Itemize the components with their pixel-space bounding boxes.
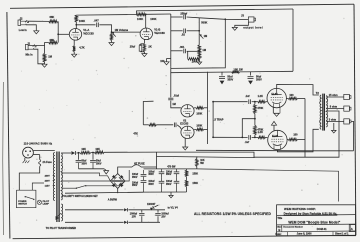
svg-text:100K: 100K (150, 17, 156, 21)
label 10K A (81, 148, 86, 151)
svg-text:350V: 350V (82, 163, 88, 165)
svg-text:WEM DOM "Boogie Blue Model": WEM DOM "Boogie Blue Model" (288, 220, 340, 224)
svg-text:8 ohm: 8 ohm (330, 106, 338, 109)
selector wire (32, 183, 44, 190)
svg-text:to V3, V4: to V3, V4 (168, 207, 179, 210)
screen bus (304, 99, 306, 158)
svg-text:50uf: 50uf (82, 161, 87, 163)
label 150K a (192, 172, 198, 175)
label .1uf V4 (245, 141, 250, 144)
svg-text:68K: 68K (50, 15, 55, 19)
svg-text:HT FUSE: HT FUSE (134, 162, 145, 165)
node grid bus V1A (57, 21, 59, 42)
svg-text:June 8, 1966: June 8, 1966 (297, 233, 312, 236)
wire J2 tip to R1 (29, 20, 49, 22)
svg-text:A: A (351, 227, 353, 231)
resistor 1M lower (198, 45, 201, 60)
resistor 10K decoupling (232, 71, 240, 74)
pentode V4 EL84 (268, 130, 287, 149)
label 15 ohm (329, 94, 339, 97)
resistor 1.2K V3 (258, 101, 267, 103)
tap label 115V (45, 186, 55, 188)
label 470K upper (257, 107, 263, 110)
label 1M tone (204, 34, 208, 38)
label 68K R2 (50, 38, 55, 42)
label choke (200, 159, 205, 165)
transformer T1 heater winding (61, 204, 62, 221)
smoothing cap col3 a (174, 169, 180, 178)
V4 grid wire (212, 136, 247, 138)
svg-text:LAMP: LAMP (43, 202, 50, 205)
svg-text:A 50/5W: A 50/5W (108, 198, 118, 201)
svg-text:350V: 350V (227, 78, 233, 81)
label 100uf d (148, 181, 154, 186)
choke resistor (196, 156, 198, 169)
bias zener (150, 205, 159, 210)
svg-text:470 5W: 470 5W (167, 166, 176, 169)
smoothing cap col1 b (141, 179, 147, 192)
bridge east riser (125, 170, 129, 181)
svg-text:110-240VAC 50/60 Hz: 110-240VAC 50/60 Hz (24, 142, 53, 146)
label to V3 V4 (168, 207, 179, 210)
label 100uf b (132, 182, 138, 187)
svg-text:1N4007: 1N4007 (147, 203, 156, 206)
label 1M lower (202, 48, 206, 52)
svg-text:½ECC83: ½ECC83 (83, 32, 94, 36)
label 100 gnd (160, 60, 165, 63)
filter cap C11 50uf (248, 72, 254, 85)
ground OT secondary (332, 123, 337, 133)
resistor 100K V1-A plate (75, 15, 77, 29)
label 2K (148, 44, 151, 48)
label V1-B (154, 28, 165, 35)
label 3 ohm (329, 118, 337, 121)
svg-text:DOM-01: DOM-01 (317, 227, 327, 231)
resistor 4.7K V1-A cathode (73, 46, 75, 52)
V4 cathode ground (271, 121, 276, 130)
speaker jack 3 (344, 119, 351, 124)
svg-text:350V: 350V (132, 177, 138, 179)
label pilot lamp (43, 201, 50, 206)
bias line upper (65, 209, 124, 211)
label 1N4007 (147, 203, 156, 206)
ground below J2 (34, 31, 39, 34)
svg-text:output level: output level (243, 25, 263, 29)
V2-B grid cap (143, 123, 181, 130)
label .01 (173, 95, 179, 98)
smoothing cap col3 b (174, 177, 180, 192)
label 10K B (95, 148, 100, 151)
label 8 ohm (330, 106, 338, 109)
tone pot wiper (199, 34, 203, 39)
title doc number (317, 227, 327, 231)
label 100uf f (166, 181, 172, 186)
transformer T1 HT secondary (61, 153, 62, 200)
label .047 (94, 18, 100, 22)
transformer T2 primary (320, 95, 322, 129)
svg-text:47K: 47K (133, 133, 138, 136)
svg-text:350V: 350V (166, 184, 172, 186)
svg-text:500K: 500K (201, 21, 207, 25)
resistor R2 68K (49, 41, 58, 44)
B+ feed wire to V1-A (76, 14, 136, 17)
label EL84 V4 (272, 134, 279, 138)
transformer T2 core (323, 94, 325, 131)
label V2 (180, 119, 189, 126)
ground J3 (232, 27, 237, 30)
heater run to output (197, 169, 339, 202)
V4 plate to OT (277, 129, 318, 152)
wire cap to volume pot (99, 25, 111, 32)
svg-text:100uf: 100uf (166, 181, 172, 183)
junction .001 (187, 50, 200, 52)
bridge rectifier (110, 174, 125, 189)
svg-text:350V: 350V (132, 185, 138, 187)
resistor loop 100K (188, 51, 200, 60)
jack J2 (18, 20, 29, 25)
V3 grid wire (212, 101, 247, 103)
tone pot body (198, 30, 200, 45)
wire V1-B cathode (143, 39, 145, 43)
wire sec top to jack (326, 96, 344, 98)
label J3 (241, 14, 244, 18)
svg-text:2K: 2K (148, 44, 151, 48)
svg-text:B: B (278, 228, 280, 232)
svg-text:100uf: 100uf (166, 171, 172, 173)
label 100 V4 (293, 134, 298, 137)
rectifier diode D1 (71, 151, 80, 155)
capacitor 25uf bypass (139, 44, 144, 52)
potentiometer 1M volume (110, 31, 112, 42)
label 50uf psu a (82, 161, 88, 166)
title designed by (284, 212, 338, 216)
capacitor .047 (97, 23, 99, 28)
wire sec bot to jack (326, 120, 344, 122)
resistor 100K V1-B plate (137, 13, 146, 16)
svg-text:100uf: 100uf (132, 182, 138, 184)
polarity switch (62, 181, 125, 189)
bias line lower (65, 221, 124, 223)
page edge shadow (2, 82, 5, 235)
V3 screen resistor 100 (286, 97, 305, 99)
label 470K lower (257, 129, 263, 132)
svg-text:1000uf: 1000uf (130, 214, 138, 216)
title label (277, 217, 283, 220)
svg-text:Low In: Low In (19, 29, 27, 32)
transformer T1 primary (53, 153, 54, 201)
svg-text:15 ohm: 15 ohm (329, 94, 339, 97)
svg-text:Document Number: Document Number (283, 226, 303, 229)
label 100K loop (192, 60, 198, 64)
ground mains (23, 158, 30, 163)
svg-text:100K: 100K (137, 17, 143, 21)
svg-text:25V: 25V (161, 216, 166, 218)
label V1-A (83, 28, 94, 35)
signal loop down (171, 19, 226, 68)
label 1M Volume (115, 28, 129, 32)
ground below R3 (42, 64, 47, 67)
title date (275, 233, 349, 236)
capacitor .02 (171, 29, 199, 34)
svg-text:½ECC83: ½ECC83 (154, 31, 165, 35)
label 50uf b (256, 76, 262, 82)
svg-text:1000uf: 1000uf (161, 214, 169, 216)
svg-text:100: 100 (160, 60, 165, 63)
label output level (243, 25, 263, 29)
svg-text:100: 100 (293, 134, 298, 137)
jack J1 (26, 44, 37, 49)
svg-text:150K: 150K (192, 172, 198, 175)
bias run (157, 156, 255, 157)
svg-text:EL84: EL84 (272, 134, 279, 138)
tone column left wire (170, 14, 172, 67)
bias diode D3 (124, 221, 160, 224)
wire cap to grid stopper V4 (252, 137, 258, 139)
svg-text:10K: 10K (95, 148, 100, 151)
label 1M R3 (48, 55, 52, 59)
svg-text:100K: 100K (192, 60, 198, 64)
title company (284, 207, 316, 211)
HT top rail (137, 9, 294, 15)
resistor 470K lower (254, 118, 257, 137)
wire V1-B plate (145, 14, 147, 28)
fuse 2A (19, 155, 41, 191)
HT secondary bottom wire (61, 180, 110, 182)
svg-text:1M: 1M (202, 48, 206, 52)
capacitor .1uf V4 (249, 135, 251, 140)
svg-text:WEM WATKINS CORP.: WEM WATKINS CORP. (284, 207, 316, 211)
divider tap wire (241, 118, 255, 139)
label 100K V2-B (196, 125, 202, 128)
label .02 (181, 33, 185, 37)
heater arrows (56, 213, 62, 220)
label 500K (201, 21, 207, 25)
ground tone pot (197, 59, 201, 64)
label 100K V2-A (196, 113, 202, 116)
svg-text:V1-A: V1-A (83, 28, 89, 32)
tap label 240V (45, 174, 55, 177)
svg-text:350V: 350V (96, 163, 102, 165)
label 100uf c (148, 171, 154, 176)
bridge output top (118, 167, 130, 174)
wire tone col to loop (170, 67, 172, 69)
svg-text:POLARITY SWITCH 120/240 SET: POLARITY SWITCH 120/240 SET (62, 195, 98, 198)
bias diode D2 (124, 208, 165, 211)
svg-text:ALL RESISTORS 1/2W 5% UNLESS S: ALL RESISTORS 1/2W 5% UNLESS SPECIFIED (194, 212, 271, 216)
PSU cap rail bottom (144, 191, 187, 193)
svg-text:68K: 68K (50, 38, 55, 42)
label 1M grid (172, 103, 175, 106)
ground caps (79, 169, 109, 174)
PI plate bus (207, 72, 209, 144)
wire cap to grid stopper (252, 101, 258, 103)
label 100uf e (166, 171, 172, 176)
svg-text:25V: 25V (132, 216, 137, 218)
HT right vertical (292, 9, 294, 71)
resistor R3 1M vertical (43, 46, 46, 65)
transformer T2 label (316, 91, 320, 95)
svg-text:1M: 1M (204, 34, 208, 38)
svg-text:150K: 150K (192, 182, 198, 185)
svg-text:350V: 350V (148, 174, 154, 176)
B+ sub rail (171, 68, 293, 72)
svg-text:250pf: 250pf (180, 11, 187, 15)
svg-text:.02: .02 (181, 33, 185, 37)
ground V1-B cathode (142, 52, 147, 57)
note all resistors (194, 212, 271, 216)
label 100uf a (132, 174, 138, 179)
label 47K (133, 133, 138, 136)
resistor 1.2K V4 (258, 136, 268, 138)
label .1uf V3 (245, 95, 250, 98)
speaker jack 8 (344, 106, 351, 111)
svg-text:10K 1W: 10K 1W (233, 67, 243, 71)
svg-text:350V: 350V (256, 78, 262, 81)
label 1.2K V4 (258, 131, 263, 134)
svg-text:Date:: Date: (275, 233, 281, 236)
svg-text:4.7K: 4.7K (79, 45, 85, 49)
label .5 TRAN (214, 119, 224, 122)
wire J2 contact to ground (26, 25, 36, 31)
label 1000uf a (130, 214, 138, 219)
triode V2-A (181, 105, 194, 117)
jack J1 label (27, 42, 30, 46)
resistor 2K V1-B cathode (143, 43, 145, 51)
label power switch (18, 201, 27, 206)
wire sec mid to jack (326, 108, 344, 110)
reservoir cap 50uf a (76, 152, 82, 169)
svg-text:100: 100 (289, 94, 294, 97)
resistor 470K upper (254, 102, 257, 119)
wire plate to coupling cap (75, 24, 95, 26)
label 4.7K (79, 45, 85, 49)
feedback line (196, 121, 354, 150)
svg-text:1M Volume: 1M Volume (115, 28, 129, 32)
svg-text:100K: 100K (196, 113, 202, 116)
V2-B input stub (143, 101, 153, 125)
svg-text:1M: 1M (172, 103, 175, 106)
V4 screen resistor 100 (287, 138, 305, 140)
ground cap rail (169, 192, 173, 198)
label 25uf (130, 44, 135, 48)
resistor V2-A plate 100K (194, 107, 207, 109)
V3 plate to OT (277, 84, 319, 95)
svg-text:50uf: 50uf (96, 161, 101, 163)
wire V1-B plate node to tone column (145, 13, 171, 15)
tap label 220V (45, 180, 55, 182)
label .001 (179, 45, 185, 49)
pentode V3 EL84 (267, 88, 286, 107)
tone pot 500K wire (198, 18, 200, 31)
svg-text:.1uf: .1uf (245, 95, 250, 98)
pot wiper arrow (112, 32, 116, 37)
wire pot to V1-B grid (112, 31, 141, 33)
mains switch loop (16, 190, 36, 208)
resistor smoothing A (80, 151, 90, 154)
wire V1-A cathode (73, 40, 75, 46)
svg-text:1.2K: 1.2K (258, 95, 263, 98)
bleeder 150K b (185, 179, 187, 192)
svg-text:25uf: 25uf (130, 44, 135, 48)
svg-text:.5 TRAP: .5 TRAP (214, 119, 224, 122)
svg-text:Sheet 1 of 1: Sheet 1 of 1 (335, 233, 349, 236)
label mains voltage (24, 142, 53, 146)
title rev box (349, 225, 355, 232)
HT secondary top wire (61, 152, 71, 154)
pilot lamp (37, 200, 41, 204)
bias cap 2 (155, 210, 160, 223)
label 100 V3 (289, 94, 294, 97)
svg-text:Designed by Stan Farlside 6.51: Designed by Stan Farlside 6.51 50 Hz. (284, 212, 338, 216)
bias cap 1 (139, 210, 144, 223)
wire J1 contact down (34, 49, 45, 64)
coupling loop vertical (212, 102, 214, 138)
label to pilot (46, 227, 77, 230)
title name (288, 220, 340, 224)
wire J1 tip to R2 (36, 43, 49, 46)
smoothing cap col1 a (141, 170, 147, 179)
wire tone to J3 (199, 18, 248, 20)
triode V2-B (181, 126, 194, 138)
ground volume pot (109, 43, 114, 46)
label Mic In (26, 53, 34, 56)
V3 cathode ground (273, 107, 280, 116)
svg-text:220V: 220V (45, 180, 51, 182)
label 10K 1W (233, 67, 243, 71)
wire J3 sleeve to ground (235, 22, 249, 27)
svg-text:240V: 240V (45, 174, 51, 177)
label polarity (62, 195, 98, 198)
svg-text:10K: 10K (81, 148, 86, 151)
ground V1-A cathode (72, 52, 77, 58)
svg-text:100K: 100K (79, 19, 85, 23)
label 100K V1-B (137, 17, 143, 21)
svg-text:1M: 1M (48, 55, 52, 59)
B+ run to output stage (157, 111, 340, 157)
svg-text:2A Fuse: 2A Fuse (43, 161, 53, 164)
bleeder 150K a (185, 169, 187, 180)
label 100K b (150, 17, 156, 21)
label 50uf psu b (96, 161, 102, 166)
svg-text:Title: Title (277, 217, 283, 220)
PSU cap rail top (144, 168, 197, 170)
reservoir cap 50uf b (90, 152, 96, 169)
svg-text:470K: 470K (257, 129, 263, 132)
wire mains live (33, 150, 55, 152)
label Low In (19, 29, 27, 32)
svg-text:100uf: 100uf (148, 181, 154, 183)
svg-text:EL84: EL84 (271, 92, 278, 96)
svg-text:.1uf: .1uf (245, 141, 250, 144)
label EL84 V3 (271, 92, 278, 96)
coupling cap .01 to V2-A (168, 73, 181, 108)
jack J3 (248, 17, 255, 22)
transformer T1 core (57, 152, 59, 223)
svg-text:SWITCH: SWITCH (18, 203, 27, 205)
capacitor .1uf V3 (249, 99, 251, 104)
capacitor 250pf (171, 15, 199, 20)
label HT fuse (134, 162, 145, 165)
tone ground stub (164, 59, 171, 65)
smoothing cap col2 a (159, 169, 165, 178)
svg-text:115V: 115V (45, 186, 51, 188)
label 250pf (180, 11, 187, 15)
svg-text:350V: 350V (148, 184, 154, 186)
title B (278, 228, 280, 232)
triode V1-B (140, 28, 152, 40)
svg-text:100uf: 100uf (132, 174, 138, 176)
svg-text:470K: 470K (257, 107, 263, 110)
